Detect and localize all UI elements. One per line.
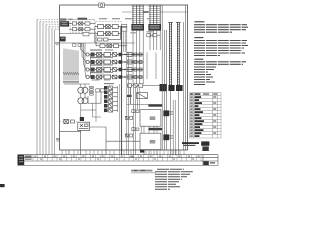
row tie wires — [91, 55, 104, 78]
notes text block — [194, 22, 248, 85]
fuse FU1 — [98, 27, 121, 41]
wire bus horizontal 2 — [60, 42, 135, 44]
heavy bus wire — [134, 11, 158, 13]
dashed group box A — [70, 20, 95, 33]
relay row K4 — [86, 75, 144, 79]
relay KV1 box — [78, 122, 90, 130]
module A2 box — [140, 133, 161, 149]
XT right end block — [202, 155, 204, 166]
wire to module A1 — [127, 103, 149, 105]
inner top line — [122, 11, 188, 13]
XS4 drop — [178, 91, 180, 155]
page edge mark — [0, 184, 5, 187]
breaker QF1 — [69, 22, 95, 25]
motor M2 — [78, 98, 88, 104]
wire bus horizontal — [60, 33, 95, 35]
fuse column bus — [121, 26, 123, 155]
bus tap box — [83, 32, 89, 36]
module feed stubs — [134, 87, 176, 155]
relay row K1 — [86, 53, 144, 57]
switch SA1 with dashed link — [60, 121, 78, 123]
relay row K2 — [86, 60, 144, 64]
KV1 wiring — [60, 127, 140, 155]
signature blob — [201, 141, 209, 145]
row interconnect verticals — [127, 27, 156, 155]
terminal strip XT — [18, 155, 219, 166]
right bus wires — [162, 5, 183, 150]
module A1 box — [140, 110, 161, 127]
connector XS1 — [131, 24, 144, 31]
legend table — [190, 93, 221, 139]
motor connection wires — [81, 84, 85, 117]
XT cell ticks — [33, 155, 201, 161]
module A2 label — [148, 128, 162, 131]
module A1 label — [148, 104, 162, 107]
sheet caption with underline — [131, 170, 153, 172]
connector XS3 — [160, 84, 167, 91]
resistor ladder R1 — [90, 86, 94, 95]
XS2 pin drops — [150, 31, 160, 50]
cable ladder W1 — [132, 5, 144, 24]
XT label block — [18, 155, 24, 165]
breaker QF2 — [69, 28, 95, 31]
aux contacts S1 — [88, 89, 104, 103]
approval stamp marks — [182, 142, 199, 144]
ground label — [55, 42, 59, 43]
aux comp row under box B — [96, 35, 127, 48]
riser drop to strip — [68, 150, 70, 155]
junction box X1 — [122, 25, 127, 32]
fuse column F1..F6 — [104, 86, 118, 112]
footnote paragraph — [155, 169, 193, 189]
cable ladder W2 — [149, 5, 161, 24]
mid comp row Y1 — [128, 84, 160, 87]
power unit G1 (filled) — [60, 21, 69, 26]
lower wire mesh — [81, 103, 101, 122]
arrow wire drops — [63, 49, 90, 85]
aux comps below XS2 — [147, 34, 161, 37]
bus risers to relay rows — [81, 43, 86, 77]
relay contact block KA2 — [163, 134, 169, 140]
connector XS4 — [168, 85, 174, 91]
terminal TB1 on top border — [99, 3, 105, 7]
ladder-to-rows risers — [124, 31, 157, 155]
frame-left ground marks — [56, 138, 59, 139]
relay row K3 — [86, 68, 144, 72]
frame inner right line — [184, 5, 186, 150]
cable pair W4 — [176, 23, 181, 88]
diode VD1 — [137, 93, 148, 99]
heading labels row — [60, 18, 87, 21]
motor M1 — [78, 87, 88, 93]
cable pair W3 — [168, 23, 173, 88]
dark tap — [127, 95, 132, 97]
A1 left contacts — [125, 110, 139, 120]
fuse column label — [104, 83, 114, 84]
dashed group box B — [96, 22, 122, 44]
small dash comps — [73, 44, 82, 47]
contactor KM1 — [95, 25, 127, 29]
riser — [130, 87, 132, 104]
A2 left contacts — [125, 128, 139, 137]
XT cell labels — [34, 156, 199, 160]
table entries — [190, 93, 217, 137]
connector XS2 — [148, 24, 161, 31]
terminal tap dark — [140, 150, 144, 153]
dashed feeder taps — [37, 20, 60, 30]
XS3 drop — [170, 91, 172, 155]
connector XS5 — [176, 85, 183, 91]
relay contact block KA1 — [163, 110, 169, 116]
drawing frame — [60, 5, 188, 150]
terminal block dark — [80, 117, 84, 121]
heading strip baseline — [60, 19, 95, 21]
XS1 pin drops — [133, 31, 143, 84]
left feeder wire bundle — [37, 20, 55, 155]
contactor KM2 — [95, 32, 121, 36]
wire riser — [94, 27, 96, 43]
strip wire stubs — [62, 150, 184, 155]
aux dark box G2 — [60, 37, 66, 42]
